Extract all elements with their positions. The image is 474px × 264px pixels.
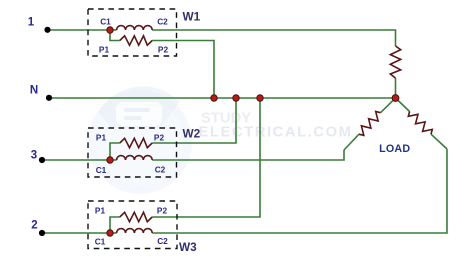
current coil C1-C2 of W1 bbox=[117, 26, 153, 30]
svg-text:ELECTRICAL.COM: ELECTRICAL.COM bbox=[199, 124, 353, 140]
wire line3: terminal 3 to W2 C1 bbox=[42, 159, 110, 161]
wire: star point to left load resistor bbox=[381, 98, 396, 113]
wire line1: terminal 1 to W1 C1 bbox=[48, 29, 111, 31]
wire: W3 C1 node to P1 lead bbox=[110, 217, 120, 233]
potential coil P1-P2 of W3 (resistor) bbox=[120, 212, 152, 221]
node C1 of W3 (junction dot) bbox=[107, 230, 113, 236]
svg-text:1: 1 bbox=[28, 17, 35, 29]
load resistor phase-3 arm (left diagonal) bbox=[359, 112, 381, 136]
wire: W3 C1 node to coil bbox=[110, 232, 117, 234]
wire: W1 C1 node to P1 lead bbox=[110, 30, 120, 41]
terminal 1 bbox=[44, 27, 50, 33]
wire line2: W3 C2 to load right arm bbox=[152, 149, 447, 233]
wire: W1 P2 to neutral junction bbox=[152, 41, 214, 99]
wattmeter W3 dashed box bbox=[88, 201, 177, 249]
svg-text:3: 3 bbox=[31, 150, 37, 162]
potential coil P1-P2 of W2 (resistor) bbox=[120, 138, 152, 147]
svg-text:C1: C1 bbox=[95, 237, 106, 247]
wire: W2 C1 node to P1 lead bbox=[110, 143, 120, 160]
node: W1 P2 junction on neutral bbox=[211, 95, 217, 101]
terminal N bbox=[46, 95, 52, 101]
svg-text:C1: C1 bbox=[100, 17, 111, 27]
svg-text:C1: C1 bbox=[96, 165, 107, 175]
current coil C1-C2 of W3 bbox=[117, 229, 153, 233]
load resistor phase-1 arm (vertical) bbox=[390, 46, 400, 78]
wire line3: W2 C2 to load left arm bbox=[152, 150, 344, 160]
wire: star point to right load resistor bbox=[396, 98, 410, 112]
svg-text:P1: P1 bbox=[96, 133, 107, 143]
svg-text:C2: C2 bbox=[157, 236, 168, 246]
wire: left load resistor to corner bbox=[344, 134, 359, 150]
svg-text:W2: W2 bbox=[183, 127, 201, 141]
wire: W2 P2 to neutral junction bbox=[152, 98, 236, 143]
wire: right load resistor to corner bbox=[431, 134, 447, 149]
svg-text:LOAD: LOAD bbox=[379, 143, 410, 155]
node star point (junction dot) bbox=[392, 95, 399, 102]
wire neutral: terminal N to star point bbox=[49, 97, 396, 99]
wire line2: terminal 2 to W3 C1 bbox=[42, 232, 110, 234]
svg-text:P2: P2 bbox=[158, 45, 169, 55]
svg-text:P1: P1 bbox=[95, 206, 106, 216]
svg-text:2: 2 bbox=[31, 220, 37, 232]
wattmeter W1 dashed box bbox=[88, 9, 177, 56]
svg-text:C2: C2 bbox=[155, 165, 166, 175]
wire: W1 C1 node to coil bbox=[110, 29, 117, 31]
svg-text:N: N bbox=[30, 85, 38, 97]
current coil C1-C2 of W2 bbox=[117, 156, 153, 160]
load resistor phase-2 arm (right diagonal) bbox=[408, 112, 432, 135]
node C1 of W2 (junction dot) bbox=[107, 157, 113, 163]
node: W2 P2 junction on neutral bbox=[233, 95, 239, 101]
terminal 2 bbox=[39, 230, 45, 236]
wire: W3 P2 to neutral junction bbox=[152, 98, 260, 217]
node C1 of W1 (junction dot) bbox=[107, 27, 113, 33]
wattmeter W2 dashed box bbox=[88, 128, 177, 177]
svg-text:W1: W1 bbox=[183, 10, 201, 24]
terminal 3 bbox=[39, 157, 45, 163]
svg-text:P2: P2 bbox=[154, 133, 165, 143]
node: W3 P2 junction on neutral bbox=[257, 95, 263, 101]
svg-text:P1: P1 bbox=[99, 45, 110, 55]
wire: W2 C1 node to coil bbox=[110, 159, 117, 161]
wire: top load resistor to star point bbox=[395, 78, 397, 98]
svg-text:P2: P2 bbox=[157, 206, 168, 216]
wire line1: W1 C2 to load top arm bbox=[152, 30, 395, 46]
svg-text:C2: C2 bbox=[157, 17, 168, 27]
potential coil P1-P2 of W1 (resistor) bbox=[120, 36, 152, 45]
svg-text:W3: W3 bbox=[179, 240, 197, 254]
